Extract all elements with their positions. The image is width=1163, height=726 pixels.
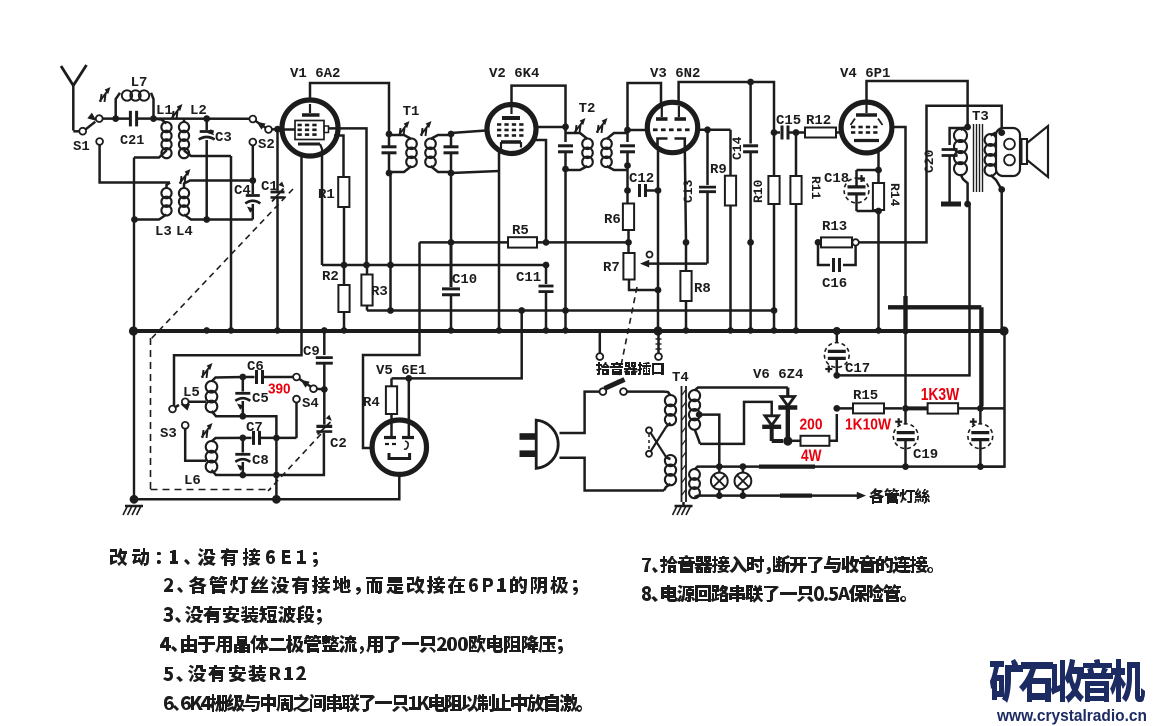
trimmers of T1 bbox=[400, 128, 401, 136]
pilot lamp 2 bbox=[735, 467, 752, 496]
wire left vertical to lower gnd bbox=[133, 331, 135, 499]
svg-text:V1 6A2: V1 6A2 bbox=[290, 66, 340, 82]
svg-text:C4: C4 bbox=[234, 183, 251, 199]
wire V5 grid lead bbox=[408, 378, 411, 436]
resistor R2 bbox=[322, 269, 350, 312]
wire V2 screen stub down bbox=[534, 140, 547, 242]
wire C18 top elbow bbox=[857, 169, 879, 172]
wire S4 to C9 line bbox=[317, 388, 325, 391]
bus junction bbox=[543, 327, 550, 334]
resistor R12 bbox=[805, 113, 843, 138]
node diode cathodes bbox=[783, 436, 792, 445]
wire S2 lower pole down bbox=[252, 145, 255, 180]
node T1 right bottom bbox=[448, 170, 455, 177]
node S4 bbox=[321, 386, 328, 393]
wire R13 to speaker feedback bbox=[859, 106, 1002, 243]
electrolytic right bbox=[968, 408, 993, 466]
node L1 top bbox=[150, 115, 157, 122]
resistor R11 bbox=[790, 133, 823, 331]
wire S3 to L5 bbox=[189, 401, 206, 404]
coil L2 bbox=[179, 103, 231, 158]
capacitor C6 bbox=[243, 359, 293, 384]
wire V5 cathode to gnd line bbox=[395, 474, 399, 499]
svg-text:R14: R14 bbox=[887, 183, 902, 207]
svg-text:L1: L1 bbox=[156, 103, 173, 119]
capacitor C11 bbox=[516, 265, 554, 330]
wire HV tap to heater line bbox=[699, 415, 719, 467]
node C17 on bus bbox=[833, 327, 841, 335]
dashed gang link C2 bbox=[268, 434, 321, 491]
bus junction bbox=[448, 327, 455, 334]
tube V2 6K4 bbox=[487, 66, 539, 154]
capacitor C7 bbox=[243, 420, 297, 445]
resistor R10 bbox=[751, 133, 780, 331]
wire S3 lower to L6 bbox=[185, 429, 206, 461]
bold mark C20 bottom bbox=[941, 202, 961, 207]
wire V2 top lead bbox=[512, 86, 566, 131]
power transformer T4 primary upper bbox=[664, 392, 676, 427]
coil L5 bbox=[183, 377, 243, 416]
svg-text:1K10W: 1K10W bbox=[845, 416, 892, 433]
bus junction bbox=[727, 327, 734, 334]
trimmer of L4 bbox=[181, 176, 182, 184]
node T3 primary bottom bbox=[964, 201, 971, 208]
node T2 left bottom bbox=[562, 166, 569, 173]
resistor R6 bbox=[604, 204, 634, 231]
svg-text:R10: R10 bbox=[751, 179, 766, 203]
svg-text:T4: T4 bbox=[672, 370, 689, 386]
wire T1 secondary to V2 grid bbox=[451, 131, 486, 134]
wire L4-bottom node to C4 bottom bbox=[207, 218, 253, 221]
wire HV bottom to left diode bbox=[700, 402, 772, 444]
bold overlay heater top bbox=[759, 465, 815, 469]
switch S2 bbox=[249, 116, 274, 153]
coil L4 bbox=[176, 181, 253, 241]
node T1 left top bbox=[386, 131, 393, 138]
wire V2 plate stub bbox=[535, 126, 566, 129]
T4 heater winding bbox=[689, 467, 700, 499]
wire C21 to L1 bbox=[137, 117, 150, 120]
node C14 bottom bbox=[747, 239, 754, 246]
wire to R9 bbox=[729, 130, 732, 176]
wire V3 cathode to R8 bbox=[685, 148, 686, 242]
node C8 bottom bbox=[239, 472, 246, 479]
variable capacitor C2 bbox=[316, 389, 346, 452]
antenna bbox=[61, 65, 87, 131]
bus end node left bbox=[129, 326, 138, 335]
dashed band-switch box bbox=[151, 338, 272, 490]
trimmer of L5 bbox=[203, 370, 204, 378]
phono jack stub right with fuse ticks bbox=[655, 335, 662, 360]
node C12 right bbox=[655, 187, 662, 194]
bus junction bbox=[683, 327, 690, 334]
phono jack stub left bbox=[596, 333, 603, 360]
bus junction bbox=[203, 327, 210, 334]
wire V1 cathode down to S3 feed bbox=[174, 154, 302, 406]
wire V5 top feed bbox=[392, 311, 522, 379]
svg-text:T3: T3 bbox=[972, 109, 989, 125]
svg-text:R13: R13 bbox=[822, 219, 847, 235]
capacitor C12 bbox=[629, 171, 658, 197]
node C11 top bbox=[543, 262, 550, 269]
node C15 left bbox=[771, 129, 778, 136]
node T1 left bottom bbox=[386, 170, 393, 177]
node R15 right bbox=[902, 405, 909, 412]
resistor R3 bbox=[361, 265, 387, 311]
node V1 grid / C1 top bbox=[274, 126, 281, 133]
switch S1 bbox=[73, 113, 103, 155]
wire S2 to V1 grid bbox=[272, 128, 283, 131]
node V5 branch bbox=[518, 307, 525, 314]
wire C15 row bbox=[774, 131, 780, 134]
svg-text:R12: R12 bbox=[806, 113, 831, 129]
node lower gnd bbox=[272, 495, 281, 504]
resistor R9 bbox=[710, 162, 736, 206]
T4 primary lower bbox=[664, 455, 676, 491]
resistor R8 bbox=[680, 242, 710, 330]
resistor R1 bbox=[318, 177, 349, 207]
trimmer of L6 bbox=[203, 430, 204, 438]
node T1 cap bottom line bbox=[387, 307, 394, 314]
svg-text:C7: C7 bbox=[246, 420, 263, 436]
wire S1 to C21 bbox=[103, 117, 131, 120]
svg-text:390: 390 bbox=[268, 381, 291, 398]
variable capacitor C1 bbox=[261, 132, 285, 330]
node T3 primary top bbox=[964, 124, 971, 131]
svg-text:S4: S4 bbox=[302, 396, 319, 412]
notes column 1 bbox=[110, 548, 318, 567]
bus junction bbox=[341, 327, 348, 334]
wire V1 pin to R3 line bbox=[329, 128, 367, 265]
resistor 1K3W bbox=[908, 403, 980, 413]
switch S4 bbox=[293, 374, 319, 412]
svg-text:R6: R6 bbox=[604, 212, 621, 228]
variable capacitor C4 bbox=[234, 183, 260, 220]
trimmer of L7 bbox=[101, 94, 102, 102]
resistor R5 bbox=[508, 223, 537, 248]
wire B+ screen line y242 bbox=[420, 241, 509, 244]
T4 core bbox=[672, 370, 689, 502]
svg-text:R11: R11 bbox=[808, 176, 823, 200]
wire speaker bottom to bus bbox=[1000, 190, 1003, 331]
node C13 top bbox=[704, 126, 711, 133]
node speaker top bbox=[998, 129, 1005, 136]
pilot lamp 1 bbox=[711, 467, 728, 496]
bus node phono/V3 bbox=[653, 326, 662, 335]
ganged pot terminal circle bbox=[647, 252, 653, 258]
coil L1 bbox=[134, 103, 173, 158]
node heater bbox=[716, 492, 723, 499]
svg-text:C18: C18 bbox=[824, 171, 849, 187]
wire V3 right top lead step bbox=[679, 82, 774, 133]
wire R7 bottom elbow bbox=[629, 280, 658, 291]
bus junction bbox=[747, 327, 754, 334]
node cathode R14 top bbox=[875, 167, 882, 174]
tube V1 6A2 bbox=[282, 66, 340, 156]
svg-text:C14: C14 bbox=[730, 136, 745, 160]
wire V4 cathode stub bbox=[877, 150, 880, 170]
label heater feed (Chinese) bbox=[869, 488, 930, 504]
wire V1 grid into box bbox=[282, 128, 295, 131]
svg-text:R15: R15 bbox=[853, 388, 878, 404]
electrolytic C17 bbox=[824, 331, 870, 377]
notes column 2 bbox=[642, 555, 933, 574]
node R8 top bbox=[683, 239, 690, 246]
svg-text:R3: R3 bbox=[371, 284, 388, 300]
svg-text:V6 6Z4: V6 6Z4 bbox=[753, 367, 803, 383]
wire V3 grid pin out bbox=[697, 129, 731, 132]
wire R2 to bus bbox=[343, 312, 346, 330]
trimmer of L2 bbox=[173, 111, 174, 119]
bus end node right bbox=[999, 326, 1008, 335]
svg-text:V5 6E1: V5 6E1 bbox=[376, 363, 426, 379]
dashed link R7 to mains switch bbox=[618, 287, 638, 383]
right vertical from bus bbox=[980, 331, 1004, 467]
svg-text:1K3W: 1K3W bbox=[921, 384, 960, 404]
node V2 plate/T2 bbox=[562, 123, 569, 130]
wire T3 primary bottom to B+ line bbox=[837, 204, 970, 375]
wire V4 top lead to T3 bbox=[867, 81, 968, 127]
node R6/R7/R5-line bbox=[625, 239, 632, 246]
variable capacitor C5 bbox=[235, 379, 269, 416]
svg-text:C16: C16 bbox=[822, 276, 847, 292]
output transformer T3 bbox=[954, 109, 1002, 204]
capacitor C20 bbox=[922, 128, 968, 204]
node L6 bottom line bbox=[273, 472, 280, 479]
tube V3 6N2 bbox=[647, 66, 700, 153]
capacitor C14 bbox=[730, 82, 758, 330]
wire V1 pin to grid-line corner bbox=[321, 152, 324, 265]
wire V1 pin to R1 bbox=[334, 136, 344, 178]
bus junction bbox=[274, 327, 281, 334]
node C5 top bbox=[239, 374, 246, 381]
wire T2 left line down to bus bbox=[564, 169, 567, 330]
bus junction bbox=[771, 327, 778, 334]
wire T1 secondary bottom to V2 cathode line bbox=[451, 171, 499, 173]
trimmers of T2 bbox=[576, 125, 577, 133]
ground symbol left bbox=[125, 505, 143, 507]
node C15 right / R11 top bbox=[793, 129, 800, 136]
svg-text:R4: R4 bbox=[363, 395, 380, 411]
node L3 bottom bbox=[131, 216, 138, 223]
switch S3 bbox=[160, 398, 190, 442]
electrolytic C18 bbox=[824, 170, 869, 211]
svg-text:R5: R5 bbox=[512, 223, 529, 239]
wire L2 bottom down to bus bbox=[230, 156, 233, 330]
bus junction bbox=[321, 327, 328, 334]
wire plug top to switch bbox=[560, 392, 600, 433]
node HV tap bbox=[696, 411, 703, 418]
ground bus bbox=[134, 329, 1005, 333]
node speaker bottom bbox=[998, 186, 1005, 193]
ground symbol T4 bbox=[673, 502, 693, 515]
node C4 top bbox=[249, 177, 256, 184]
bus junction bbox=[228, 327, 235, 334]
coil L6 bbox=[184, 438, 243, 489]
svg-text:4W: 4W bbox=[801, 447, 822, 465]
wire to right vertical bbox=[980, 407, 1004, 410]
svg-text:R2: R2 bbox=[322, 269, 339, 285]
svg-text:R7: R7 bbox=[603, 260, 620, 276]
wire R9 down to bus bbox=[729, 206, 732, 331]
svg-text:C20: C20 bbox=[922, 149, 937, 173]
dashed gang line C1 to band box bbox=[151, 189, 293, 339]
node C12 left bbox=[624, 187, 631, 194]
label phono jack (Chinese) bbox=[596, 362, 664, 375]
node R13 right bbox=[852, 239, 858, 245]
wiper arrow line of R7 bbox=[644, 262, 707, 265]
svg-text:C2: C2 bbox=[330, 436, 347, 452]
bus junction bbox=[562, 327, 569, 334]
svg-text:C6: C6 bbox=[247, 359, 264, 375]
node L7 left bbox=[112, 115, 119, 122]
svg-text:C17: C17 bbox=[845, 361, 870, 377]
wire L1/L3 common down to bus bbox=[133, 158, 135, 331]
node 1K3W right bbox=[977, 405, 984, 412]
node T2 right bottom bbox=[624, 162, 631, 169]
bold modification wire bbox=[888, 296, 981, 406]
svg-text:S3: S3 bbox=[160, 426, 177, 442]
svg-text:C21: C21 bbox=[120, 134, 144, 149]
T4 HV secondary bbox=[689, 388, 700, 444]
svg-text:L6: L6 bbox=[184, 473, 201, 489]
coil L3 bbox=[135, 183, 172, 241]
diode D2 (V6 6Z4 right) bbox=[778, 388, 797, 442]
capacitor C21 bbox=[120, 111, 144, 149]
node R13 left bbox=[815, 239, 822, 246]
svg-text:S1: S1 bbox=[73, 139, 90, 155]
node heater bbox=[740, 492, 747, 499]
capacitor C16 bbox=[818, 242, 856, 292]
IF transformer T2 bbox=[558, 101, 635, 170]
svg-text:S2: S2 bbox=[258, 137, 275, 153]
wire L5 bottom to C2 branch bbox=[243, 416, 277, 499]
svg-text:C1: C1 bbox=[261, 179, 278, 195]
mains plug bbox=[520, 420, 559, 468]
node T1 right top bbox=[448, 131, 455, 138]
node R1/R2 bbox=[341, 262, 348, 269]
wire AVC line y310 bbox=[367, 309, 774, 312]
variable capacitor C8 bbox=[235, 440, 269, 475]
tube V5 6E1 bbox=[372, 363, 426, 474]
svg-text:C19: C19 bbox=[913, 447, 938, 463]
bus junction bbox=[496, 327, 503, 334]
svg-text:L3: L3 bbox=[155, 224, 172, 240]
wire HV top to right diode bbox=[700, 386, 788, 389]
node L2 top / C3 bbox=[203, 115, 210, 122]
wire V3 cathode line down to bus bbox=[657, 191, 660, 331]
node C5 bottom bbox=[239, 413, 246, 420]
wire V4 plate pin down bbox=[890, 127, 906, 408]
svg-text:200: 200 bbox=[800, 416, 823, 433]
wire V3 cathode to C12 line bbox=[657, 149, 660, 191]
resistor R4 bbox=[363, 378, 397, 437]
wire R6 to R7 bbox=[627, 230, 630, 253]
svg-text:C3: C3 bbox=[215, 130, 232, 146]
resistor R14 bbox=[873, 170, 902, 330]
capacitor C10 bbox=[442, 242, 477, 330]
svg-text:C12: C12 bbox=[629, 171, 654, 187]
watermark logo bbox=[990, 659, 1145, 703]
svg-text:L4: L4 bbox=[176, 224, 193, 240]
resistor R15 bbox=[837, 388, 902, 413]
svg-text:T2: T2 bbox=[579, 101, 596, 117]
bold overlay heater bottom bbox=[780, 494, 812, 498]
electrolytic C19 bbox=[893, 408, 938, 466]
voltage selector X bbox=[646, 426, 667, 457]
node R5/V2 screen bbox=[543, 239, 550, 246]
svg-text:R1: R1 bbox=[318, 187, 335, 203]
svg-text:V4 6P1: V4 6P1 bbox=[840, 66, 890, 82]
svg-text:L7: L7 bbox=[131, 75, 148, 91]
wire T2 right to C12/R6 bbox=[626, 166, 629, 204]
svg-text:C11: C11 bbox=[516, 270, 541, 286]
node T1-cap line on grid wire bbox=[387, 262, 394, 269]
wire V1 top plate lead bbox=[310, 83, 389, 131]
wire T2 right top to V3 step bbox=[628, 83, 662, 130]
wire switch to T4 primary bbox=[627, 390, 664, 393]
wire grid line y265 bbox=[322, 264, 546, 267]
resistor R13 bbox=[821, 219, 852, 247]
node R15 left bbox=[833, 405, 840, 412]
speaker bbox=[996, 126, 1048, 177]
wire T1 right line down to C10 bbox=[450, 173, 453, 242]
node B+ line bbox=[833, 372, 840, 379]
wire T2 top to V3 grid bbox=[628, 129, 649, 132]
svg-text:C10: C10 bbox=[452, 272, 477, 288]
capacitor C9 bbox=[303, 331, 333, 389]
wire L6 bottom to C2 bbox=[243, 433, 324, 475]
wire plug bottom to T4 bbox=[560, 458, 665, 491]
node T2 line crossing bbox=[562, 307, 569, 314]
mains switch with fuse bbox=[600, 380, 627, 396]
wire S1 lower pole to L3 bbox=[100, 145, 170, 183]
potentiometer R7 bbox=[603, 253, 635, 280]
wire T1 cap line down to AVC bbox=[389, 173, 392, 311]
node gnd line left bbox=[130, 495, 139, 504]
svg-text:C5: C5 bbox=[252, 391, 269, 407]
capacitor C13 bbox=[681, 130, 716, 264]
svg-text:R8: R8 bbox=[694, 281, 711, 297]
diode D1 (V6 6Z4 left) bbox=[762, 404, 783, 441]
svg-text:C8: C8 bbox=[252, 453, 269, 469]
svg-text:V2 6K4: V2 6K4 bbox=[489, 66, 539, 82]
wire S4 lower pole to C7 bbox=[295, 403, 298, 438]
svg-text:V3 6N2: V3 6N2 bbox=[650, 66, 700, 82]
variable capacitor C3 bbox=[199, 121, 232, 220]
node heater bbox=[902, 463, 909, 470]
bus junction bbox=[875, 327, 882, 334]
svg-text:C13: C13 bbox=[681, 179, 696, 203]
svg-text:C15: C15 bbox=[776, 113, 801, 129]
node C14 top bbox=[747, 79, 754, 86]
wire R1 to R2 bbox=[343, 207, 346, 285]
svg-text:www.crystalradio.cn: www.crystalradio.cn bbox=[996, 706, 1147, 725]
bus junction bbox=[793, 327, 800, 334]
svg-text:T1: T1 bbox=[403, 104, 420, 120]
wire L2 top to S2 bbox=[154, 117, 250, 120]
coil L7 bbox=[116, 75, 154, 117]
heater bottom line bbox=[700, 494, 858, 497]
wire R5 line down through bus to V5 bbox=[363, 242, 420, 448]
bus junction bbox=[834, 327, 841, 334]
node R14/C18 bottom bbox=[875, 208, 882, 215]
svg-text:R9: R9 bbox=[710, 162, 727, 178]
heater top line bbox=[700, 465, 1005, 468]
node heater bbox=[740, 463, 747, 470]
node L4 bottom bbox=[203, 216, 210, 223]
node R3 top bbox=[363, 262, 370, 269]
